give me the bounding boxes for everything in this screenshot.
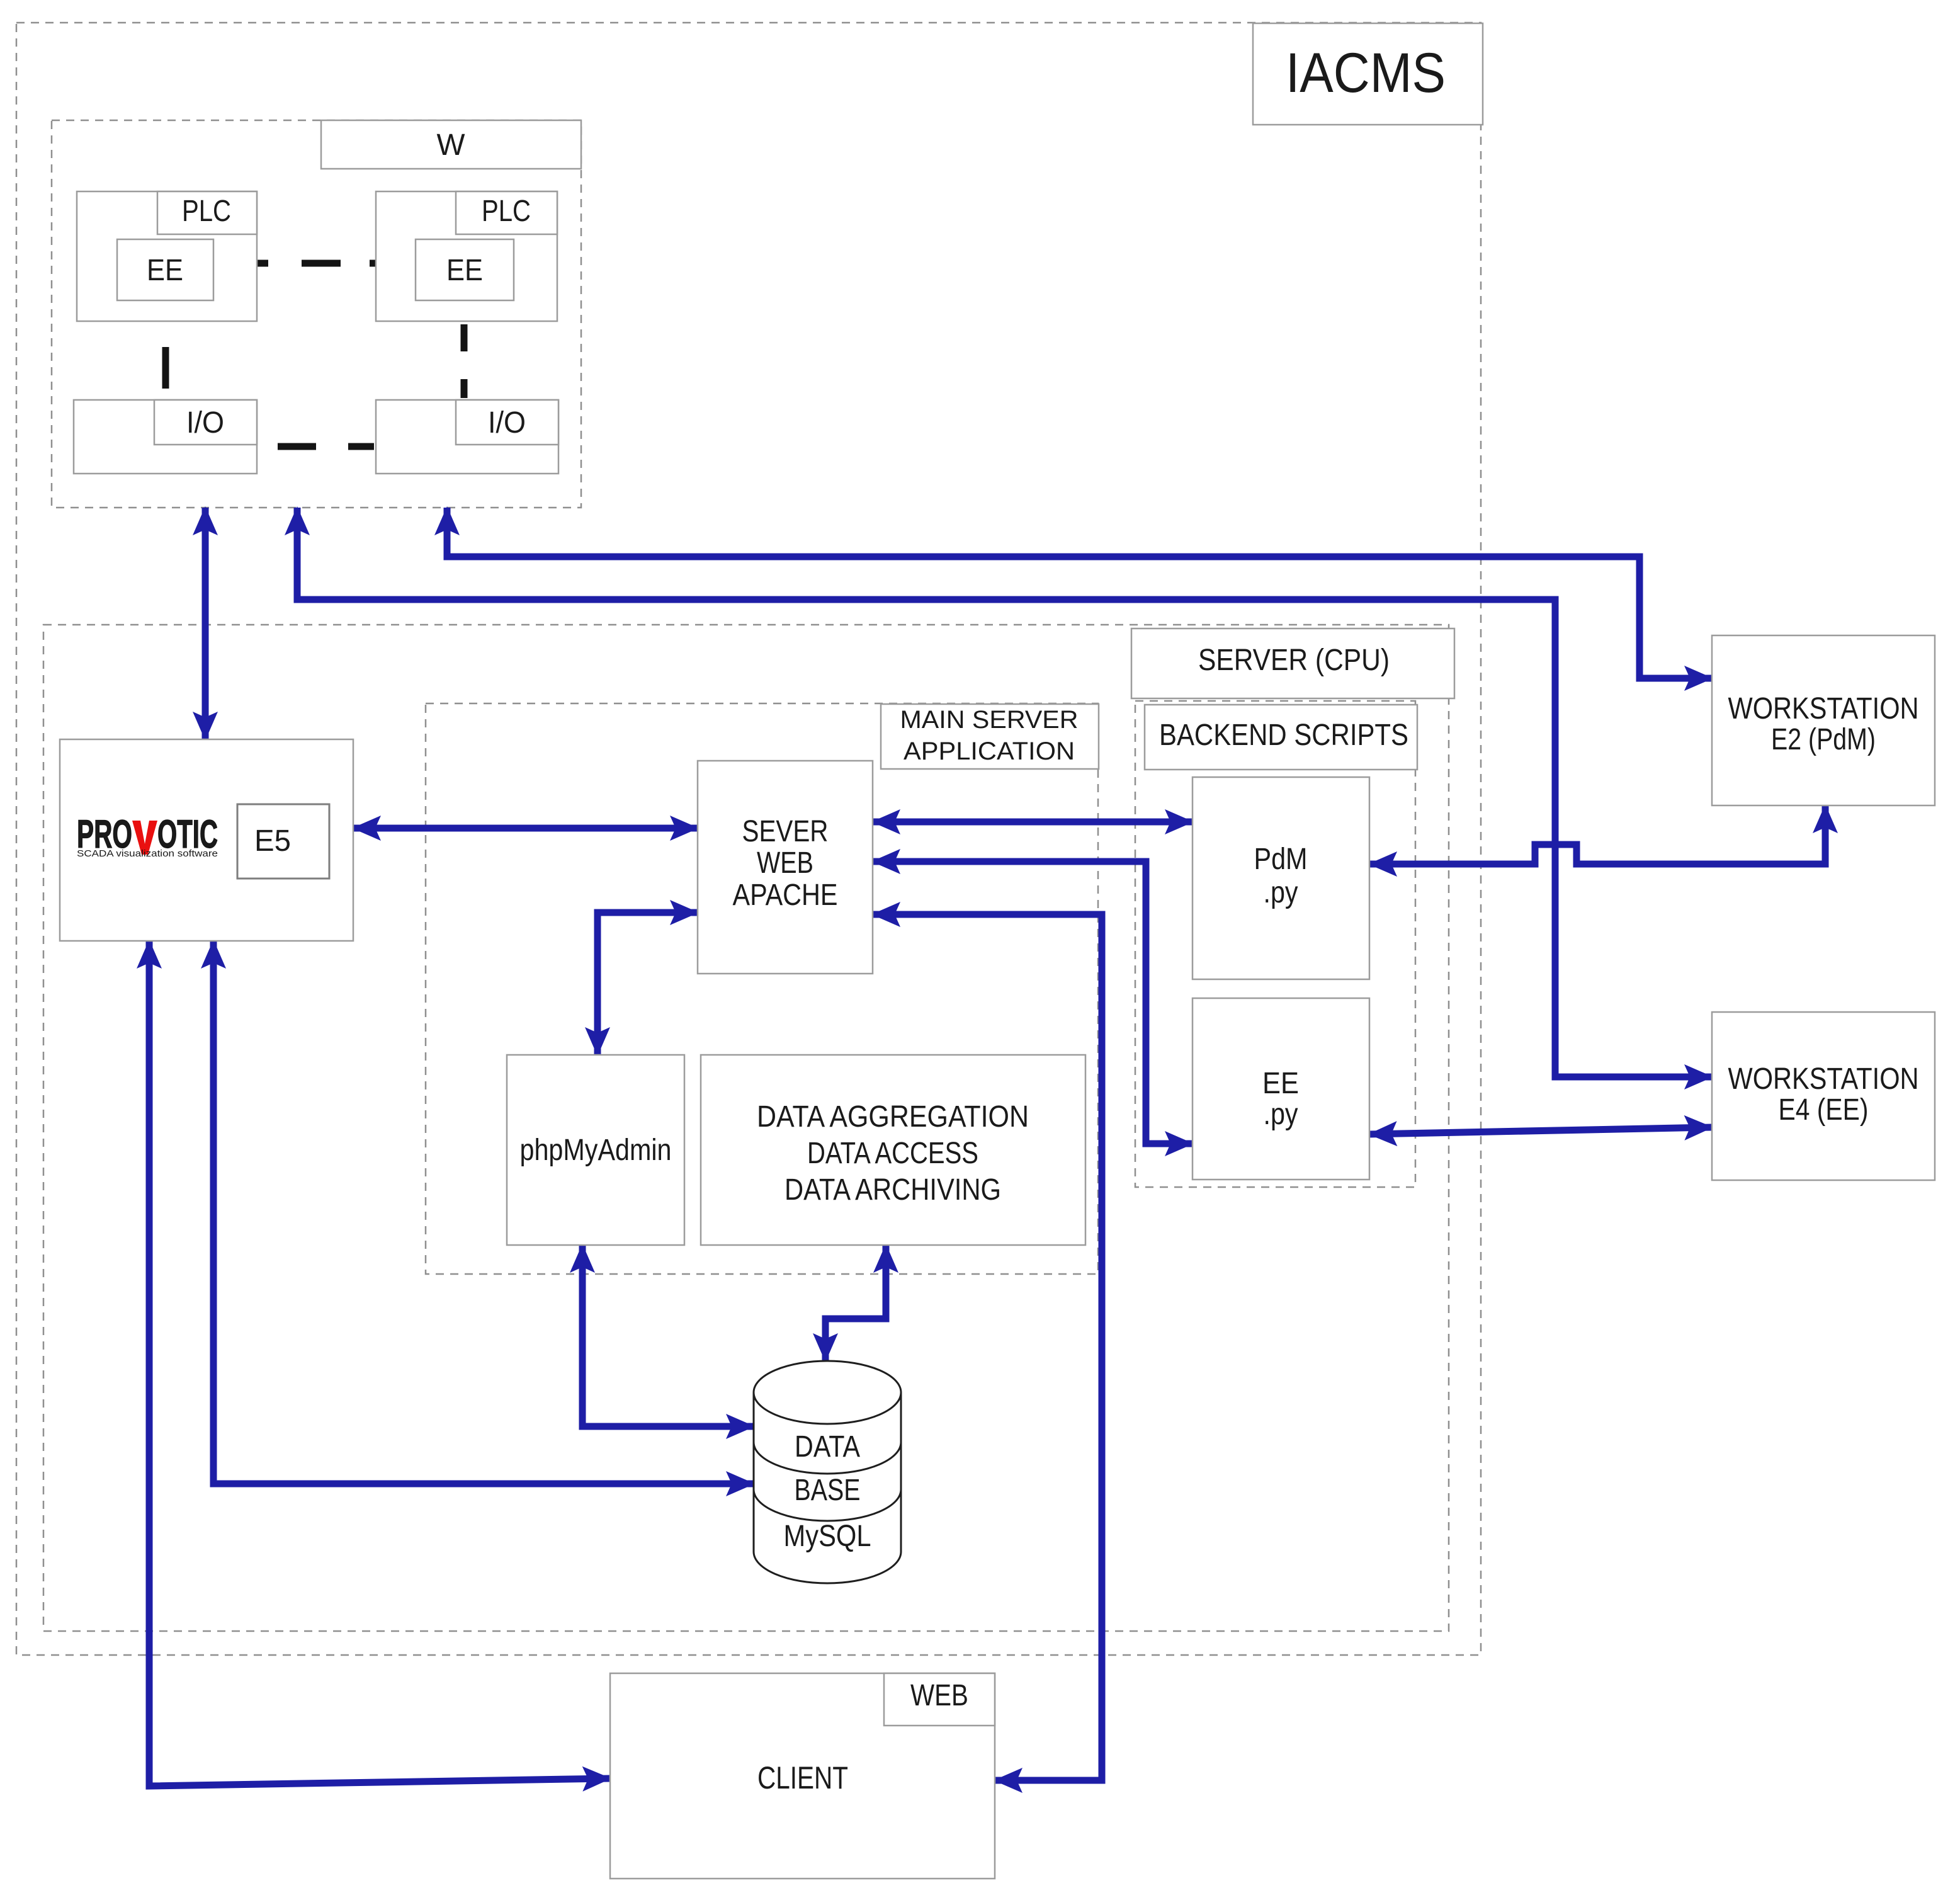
- svg-text:APACHE: APACHE: [733, 879, 838, 912]
- wire PROMOTIC to CLIENT: [149, 941, 610, 1786]
- dashed link PLC2 to I/O2: [461, 324, 468, 398]
- svg-text:IACMS: IACMS: [1286, 41, 1446, 104]
- dashed container W: [52, 120, 581, 508]
- box PLC 2: [376, 191, 557, 321]
- wire DATA AGGREGATION to DATABASE cylinder: [825, 1245, 886, 1361]
- wire SEVER WEB APACHE to PdM.py: [873, 819, 1192, 826]
- database cylinder DATA BASE MySQL: [754, 1361, 901, 1583]
- dashed container server section: [43, 625, 1449, 1631]
- svg-text:SCADA visualization software: SCADA visualization software: [77, 848, 218, 859]
- wire SEVER WEB APACHE to EE.py: [873, 862, 1192, 1144]
- svg-text:WORKSTATION: WORKSTATION: [1728, 692, 1919, 725]
- box EE.py: [1192, 998, 1369, 1180]
- svg-text:WEB: WEB: [757, 846, 813, 880]
- svg-text:MySQL: MySQL: [784, 1520, 871, 1553]
- svg-text:DATA AGGREGATION: DATA AGGREGATION: [757, 1100, 1029, 1134]
- dashed container BACKEND SCRIPTS: [1135, 701, 1415, 1187]
- svg-text:SEVER: SEVER: [742, 815, 829, 848]
- dashed link PLC1 to PLC2: [257, 260, 376, 267]
- box WORKSTATION E2 (PdM): [1712, 635, 1935, 805]
- label box MAIN SERVER APPLICATION: [881, 704, 1099, 769]
- box CLIENT: [610, 1673, 995, 1879]
- svg-text:APPLICATION: APPLICATION: [904, 737, 1075, 765]
- svg-text:DATA ACCESS: DATA ACCESS: [807, 1137, 978, 1170]
- svg-text:.py: .py: [1264, 1098, 1298, 1131]
- svg-text:phpMyAdmin: phpMyAdmin: [520, 1134, 672, 1167]
- wire PdM.py to WORKSTATION E2 with hop: [1369, 805, 1825, 864]
- wire W to WORKSTATION E4: [297, 508, 1712, 1077]
- svg-text:E2 (PdM): E2 (PdM): [1771, 723, 1876, 756]
- logo red M: [132, 821, 157, 855]
- box EE 2: [416, 239, 514, 300]
- wire W to WORKSTATION E2: [447, 508, 1712, 678]
- svg-text:BACKEND SCRIPTS: BACKEND SCRIPTS: [1159, 719, 1408, 752]
- outer dashed container IACMS: [16, 23, 1481, 1655]
- wire SEVER WEB APACHE to phpMyAdmin: [598, 913, 698, 1055]
- label box W: [321, 120, 581, 169]
- svg-text:SERVER (CPU): SERVER (CPU): [1198, 644, 1390, 677]
- svg-text:PdM: PdM: [1254, 843, 1308, 876]
- box DATA AGGREGATION: [701, 1055, 1085, 1245]
- svg-text:PLC: PLC: [482, 195, 531, 228]
- svg-text:WEB: WEB: [910, 1679, 968, 1712]
- svg-text:PLC: PLC: [182, 195, 231, 228]
- box I/O 2: [376, 400, 558, 474]
- svg-text:I/O: I/O: [186, 406, 224, 440]
- svg-text:EE: EE: [1262, 1067, 1299, 1100]
- dashed link I/O1 to I/O2: [278, 443, 374, 450]
- svg-text:MAIN SERVER: MAIN SERVER: [900, 706, 1079, 734]
- label box WEB: [884, 1673, 995, 1726]
- box EE 1: [117, 239, 213, 300]
- label box SERVER (CPU): [1131, 629, 1454, 698]
- svg-text:EE: EE: [446, 254, 483, 287]
- label box BACKEND SCRIPTS: [1145, 705, 1417, 770]
- svg-text:W: W: [437, 128, 466, 162]
- svg-text:WORKSTATION: WORKSTATION: [1728, 1062, 1919, 1096]
- wire phpMyAdmin to DATABASE cylinder: [582, 1245, 754, 1426]
- wire PROMOTIC to DATABASE cylinder: [213, 941, 754, 1484]
- svg-text:.py: .py: [1264, 876, 1298, 909]
- svg-text:CLIENT: CLIENT: [757, 1760, 848, 1795]
- box I/O 1: [74, 400, 257, 474]
- dashed container MAIN SERVER APPLICATION: [426, 703, 1098, 1274]
- svg-text:DATA: DATA: [795, 1430, 860, 1464]
- svg-text:DATA ARCHIVING: DATA ARCHIVING: [785, 1173, 1001, 1207]
- box SEVER WEB APACHE: [698, 761, 873, 974]
- wire EE.py to WORKSTATION E4: [1369, 1127, 1712, 1134]
- box PdM.py: [1192, 777, 1369, 979]
- box PLC 1: [77, 191, 257, 321]
- box phpMyAdmin: [507, 1055, 684, 1245]
- box E5: [237, 804, 329, 879]
- svg-text:EE: EE: [147, 254, 183, 287]
- svg-text:E5: E5: [254, 824, 291, 858]
- wire SEVER WEB APACHE to CLIENT: [873, 914, 1102, 1780]
- dashed link PLC1 to I/O1: [162, 347, 169, 389]
- label box IACMS: [1253, 23, 1483, 125]
- svg-text:E4 (EE): E4 (EE): [1779, 1093, 1869, 1127]
- box WORKSTATION E4 (EE): [1712, 1012, 1935, 1180]
- svg-text:I/O: I/O: [488, 406, 526, 440]
- wire W to PROMOTIC: [202, 508, 209, 739]
- wire PROMOTIC to SEVER WEB APACHE: [353, 825, 698, 832]
- box PROMOTIC E5: [60, 739, 353, 941]
- svg-text:BASE: BASE: [795, 1474, 861, 1507]
